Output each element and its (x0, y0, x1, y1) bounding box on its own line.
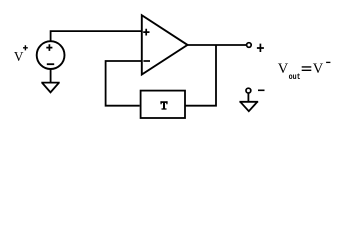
minus sign inside source (47, 63, 54, 65)
svg-text:V: V (14, 49, 24, 64)
label plus at output (257, 44, 264, 52)
svg-text:V: V (313, 61, 324, 77)
block T (141, 91, 185, 118)
wire T block output to output node (185, 45, 216, 106)
negative terminal circle (246, 88, 251, 93)
wire inverting input to T block input (106, 61, 143, 106)
equals sign (302, 67, 312, 70)
plus sign inside source (46, 44, 52, 51)
label T (160, 101, 167, 109)
voltage source V1 (37, 41, 65, 69)
label minus at negative terminal (258, 89, 265, 91)
superscript plus of V+ (23, 45, 28, 50)
wire negative terminal to ground (247, 93, 249, 102)
wire source top to op-amp noninverting input (51, 31, 143, 41)
op-amp minus input label (143, 60, 150, 62)
ground GND2 (239, 102, 258, 111)
ground GND1 (41, 83, 59, 93)
op-amp plus input label (143, 29, 149, 36)
svg-text:out: out (289, 73, 301, 82)
op-amp U1 (142, 15, 188, 74)
superscript minus (326, 61, 330, 63)
svg-text:V: V (278, 61, 289, 77)
wire op-amp output (188, 44, 247, 46)
subscript out (289, 73, 301, 82)
output terminal (247, 43, 252, 48)
wire source bottom to ground (50, 69, 52, 83)
